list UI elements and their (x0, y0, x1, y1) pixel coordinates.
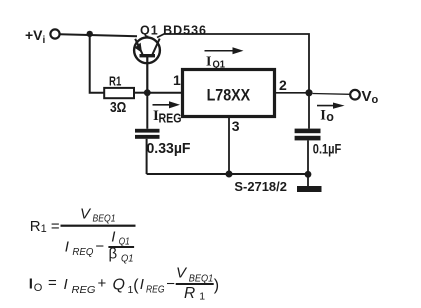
wire node B to pin 1 (147, 92, 182, 94)
svg-text:BEQ1: BEQ1 (93, 213, 116, 225)
capacitor C1 0.33uF (135, 129, 160, 139)
svg-text:L78XX: L78XX (207, 86, 251, 105)
transistor Q1 (134, 37, 160, 92)
svg-text:−: − (166, 276, 175, 293)
svg-text:I: I (111, 229, 115, 246)
svg-text:I: I (29, 276, 33, 293)
svg-text:REG: REG (159, 112, 182, 126)
svg-text:3Ω: 3Ω (110, 99, 126, 116)
wire pin 3 to ground rail (228, 118, 230, 174)
IC U1 L78XX (183, 70, 275, 117)
svg-text:Q1 BD536: Q1 BD536 (140, 23, 206, 37)
svg-text:REG: REG (146, 285, 165, 296)
svg-text:−: − (95, 238, 104, 255)
svg-text:Q1: Q1 (121, 253, 134, 265)
svg-text:3: 3 (232, 118, 240, 134)
formula Io = I_REG + Q1 (I_REG - V_BEQ1/R1) (29, 265, 219, 303)
svg-text:V: V (362, 88, 372, 105)
junction pin3 / rail (226, 171, 233, 178)
ground rail wire (147, 173, 308, 175)
wire +Vi to Q1 emitter (60, 34, 137, 36)
current arrow I_o (317, 103, 345, 109)
svg-text:R1: R1 (109, 74, 121, 89)
svg-text:o: o (326, 110, 334, 124)
wire node A down to R1 (90, 34, 105, 93)
svg-text:I: I (140, 276, 144, 293)
wire pin 2 to output node (275, 92, 310, 94)
svg-text:=: = (48, 275, 57, 292)
svg-text:I: I (64, 276, 68, 293)
svg-text:Q: Q (113, 277, 125, 294)
ground stub (307, 174, 309, 187)
junction C2 / rail (305, 171, 312, 178)
resistor R1 (104, 88, 134, 98)
svg-text:R: R (184, 285, 195, 302)
capacitor C2 0.1uF (295, 129, 321, 141)
svg-text:0.33µF: 0.33µF (147, 141, 191, 157)
svg-text:REG: REG (72, 284, 96, 296)
wire Q1 collector to output node (top rail) (157, 34, 309, 93)
wire C2 to ground rail (307, 140, 309, 174)
svg-text:I: I (206, 55, 211, 70)
svg-text:2: 2 (279, 77, 287, 93)
svg-text:1: 1 (199, 291, 205, 303)
wire C1 to ground rail (146, 139, 148, 174)
wire output node to Vo terminal (313, 93, 351, 96)
svg-text:REQ: REQ (72, 246, 93, 258)
svg-text:V: V (176, 265, 188, 282)
svg-text:(: ( (133, 277, 139, 294)
svg-text:+: + (98, 275, 107, 292)
junction node A (input) (87, 31, 93, 37)
svg-text:BEQ1: BEQ1 (189, 274, 214, 285)
svg-text:V: V (80, 206, 92, 223)
svg-text:+Vi: +Vi (25, 27, 46, 46)
svg-text:): ) (214, 277, 219, 294)
wire node B down to C1 (146, 93, 148, 129)
svg-text:O: O (34, 282, 43, 294)
svg-text:Q1: Q1 (119, 236, 130, 248)
wire R1 to node B (134, 92, 147, 94)
svg-text:1: 1 (173, 72, 181, 88)
svg-text:0.1µF: 0.1µF (313, 140, 342, 156)
ground (297, 186, 322, 192)
svg-text:o: o (372, 94, 379, 106)
current arrow I_Q1 (205, 47, 244, 54)
svg-text:R1 =: R1 = (30, 218, 60, 235)
svg-text:S-2718/2: S-2718/2 (234, 180, 287, 194)
terminal +Vi (50, 29, 59, 38)
terminal Vo (350, 90, 360, 100)
current arrow I_REG (153, 101, 181, 108)
svg-text:I: I (65, 239, 69, 256)
formula R1 = V_BEQ1 / (I_REQ - I_Q1/beta_Q1) (30, 206, 136, 265)
output node junction (305, 89, 312, 96)
node B junction (R1/base/pin1) (144, 89, 151, 96)
svg-text:β: β (109, 246, 118, 263)
wire output node down to C2 (308, 93, 310, 129)
